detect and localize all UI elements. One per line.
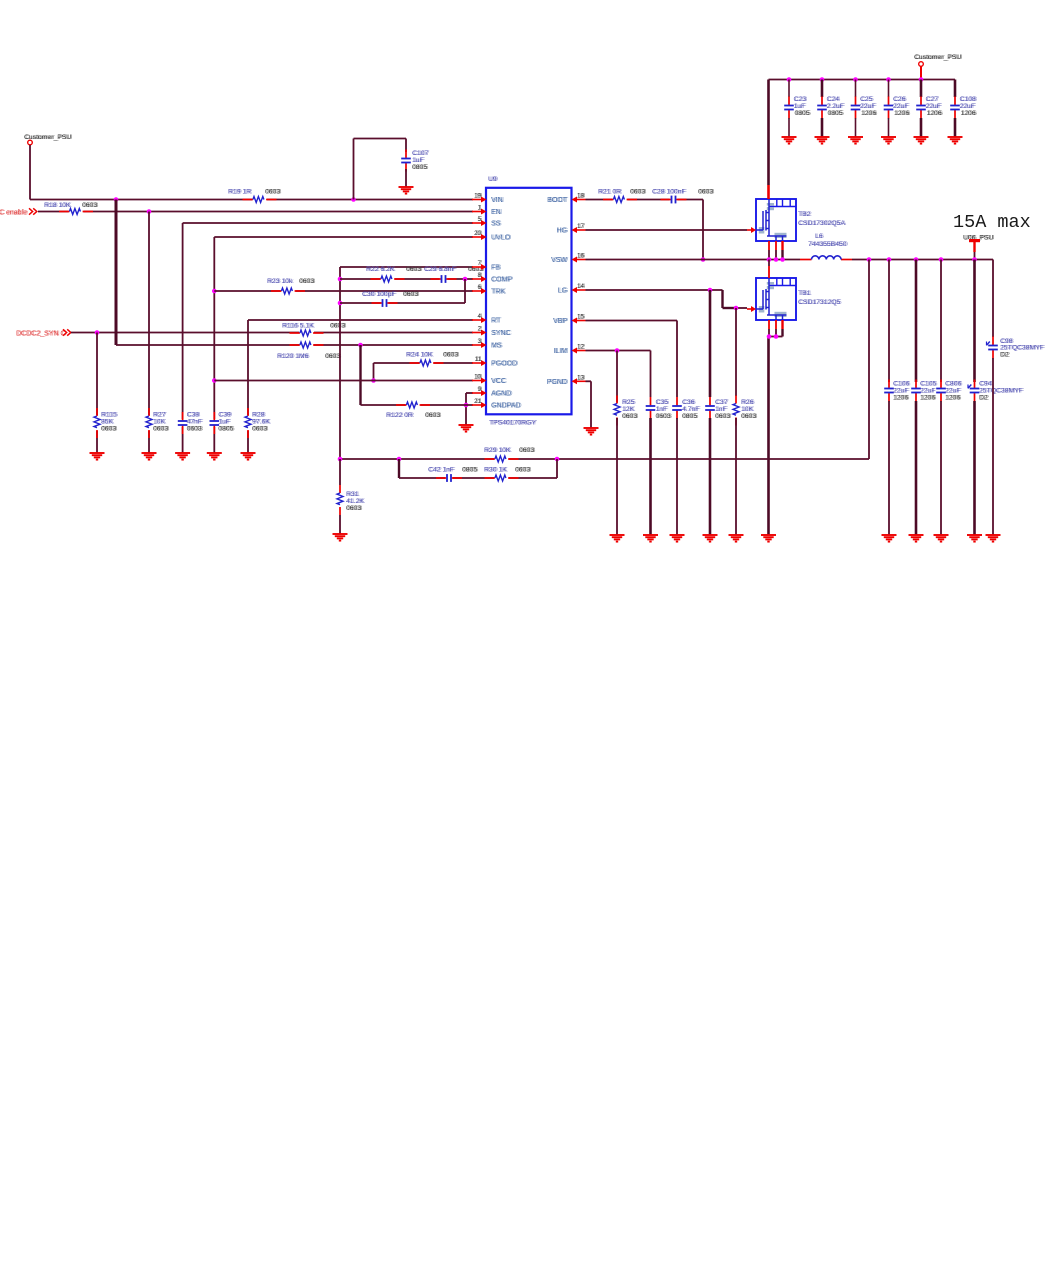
svg-text:18: 18 (578, 193, 585, 200)
wire C24 branch (821, 80, 824, 98)
wire TRK net (214, 290, 473, 292)
capacitor C24 (817, 96, 846, 119)
svg-text:C29 6.8nF: C29 6.8nF (425, 266, 457, 273)
svg-text:10K: 10K (742, 406, 755, 413)
svg-text:C106: C106 (894, 381, 910, 388)
ground for C39 (207, 453, 222, 460)
svg-text:EN: EN (492, 209, 502, 216)
wire LG gate drive net (586, 290, 748, 308)
wire ILIM net (586, 351, 651, 398)
svg-text:VIN: VIN (492, 197, 504, 204)
svg-text:R24 10K: R24 10K (407, 352, 434, 359)
svg-text:PGOOD: PGOOD (492, 361, 518, 368)
svg-text:22uF: 22uF (946, 388, 962, 395)
resistor R19 (228, 189, 282, 204)
svg-text:C107: C107 (413, 150, 429, 157)
svg-text:22uF: 22uF (894, 103, 910, 110)
svg-text:R22 6.2K: R22 6.2K (367, 266, 396, 273)
ground for C107 (399, 187, 414, 194)
svg-text:BOOT: BOOT (548, 197, 569, 204)
svg-text:R23 10k: R23 10k (268, 278, 294, 285)
svg-text:6: 6 (479, 284, 483, 291)
svg-text:SYNC: SYNC (492, 330, 511, 337)
svg-text:C23: C23 (795, 96, 808, 103)
svg-text:1206: 1206 (962, 110, 977, 117)
svg-text:R18 10K: R18 10K (45, 202, 72, 209)
capacitor C94 (968, 380, 1024, 402)
svg-text:RT: RT (492, 318, 502, 325)
wire C25 to ground (855, 118, 857, 137)
svg-text:2.2uF: 2.2uF (828, 103, 845, 110)
node VIN junction at FSEL strap (114, 197, 119, 202)
resistor R24 (406, 352, 460, 368)
node VSW at TB2 sources (767, 257, 785, 262)
svg-text:C105: C105 (921, 381, 937, 388)
svg-text:0805: 0805 (220, 426, 235, 433)
ground for TB1 source (761, 535, 776, 542)
wire RT net (248, 320, 473, 453)
ground for C36 (670, 535, 685, 542)
svg-text:C806: C806 (946, 381, 962, 388)
wire TB2 drain from input rail (767, 80, 770, 200)
svg-text:VBP: VBP (554, 318, 568, 325)
svg-text:L6: L6 (816, 233, 824, 240)
node TB1 gate / R26 junction (734, 306, 739, 311)
port DCDC2_SYN C (16, 329, 71, 337)
svg-text:97.6K: 97.6K (253, 419, 271, 426)
svg-text:C38: C38 (188, 412, 201, 419)
wire C37 to ground (709, 418, 712, 535)
port Customer_PSU (top-left) (24, 134, 73, 145)
svg-text:10K: 10K (154, 419, 167, 426)
wire VOUT rail (975, 252, 994, 337)
ground for AGND (459, 425, 474, 432)
wire C806 to ground (940, 401, 942, 535)
svg-text:0603: 0603 (102, 426, 117, 433)
wire R25 to ground (616, 418, 618, 535)
wire C806 branch (940, 260, 942, 383)
resistor R27 (145, 408, 170, 438)
resistor R29 (484, 447, 536, 463)
svg-text:13: 13 (578, 374, 585, 381)
node input rail junctions (787, 77, 924, 82)
inductor L6 (800, 233, 852, 260)
wire C42/R30 branch (399, 459, 557, 478)
svg-text:C24: C24 (828, 96, 841, 103)
capacitor C27 (916, 96, 944, 119)
ground for C806 (934, 535, 949, 542)
svg-text:0805: 0805 (829, 110, 844, 117)
svg-text:3: 3 (479, 338, 483, 345)
svg-text:0603: 0603 (154, 426, 169, 433)
capacitor C25 (850, 96, 878, 119)
wire TB1 source pins to ground rail (769, 320, 783, 535)
svg-text:85K: 85K (102, 419, 115, 426)
svg-text:C27: C27 (927, 96, 940, 103)
resistor R23 (267, 278, 316, 295)
wire C23 to ground (788, 118, 790, 137)
wire PGOOD net (374, 363, 474, 381)
transistor TB1 CSD17312Q5 (low side) (747, 278, 842, 320)
svg-text:12: 12 (578, 344, 585, 351)
node LG/C37 junction (708, 288, 713, 293)
svg-text:GNDPAD: GNDPAD (492, 403, 521, 410)
ground for C98 (986, 535, 1001, 542)
ground for C26 (881, 137, 896, 144)
svg-text:8: 8 (479, 272, 483, 279)
svg-text:UVLO: UVLO (492, 235, 512, 242)
resistor R22 (366, 266, 423, 283)
wire VOUT feedback sense tap (868, 260, 870, 460)
svg-text:9: 9 (479, 386, 483, 393)
svg-text:C37: C37 (716, 399, 729, 406)
svg-text:R29 10K: R29 10K (485, 447, 512, 454)
svg-text:25TQC38MYF: 25TQC38MYF (1001, 345, 1045, 352)
svg-text:Customer_PSU: Customer_PSU (25, 134, 72, 141)
capacitor C106 (884, 380, 911, 402)
svg-text:TPS40170RGY: TPS40170RGY (490, 420, 537, 427)
svg-text:R19 1R: R19 1R (229, 189, 252, 196)
port IC enable (0, 208, 37, 216)
wire SS net (183, 223, 473, 453)
capacitor C23 (784, 96, 812, 119)
resistor R31 (336, 485, 366, 515)
resistor R26 (732, 396, 758, 426)
svg-text:1: 1 (479, 205, 483, 212)
svg-text:4.7nF: 4.7nF (683, 406, 700, 413)
svg-text:2: 2 (479, 326, 483, 333)
wire C105 to ground (915, 401, 918, 535)
port Customer_PSU (top-right) (914, 54, 963, 80)
svg-text:1206: 1206 (895, 110, 910, 117)
svg-text:AGND: AGND (492, 391, 512, 398)
wire R31 branch (339, 459, 341, 534)
ground for C25 (848, 137, 863, 144)
svg-text:25TQC38MYF: 25TQC38MYF (980, 388, 1024, 395)
svg-text:0603: 0603 (742, 413, 757, 420)
wire input rail (769, 79, 956, 81)
node EN junction (147, 209, 152, 214)
capacitor C35 (645, 397, 672, 420)
node AGND/GNDPAD junction (464, 403, 469, 408)
node FB/C30 junction (338, 301, 343, 306)
svg-text:15: 15 (578, 314, 585, 321)
svg-text:C42 1nF: C42 1nF (429, 467, 455, 474)
resistor R115 (93, 408, 118, 438)
node VOUT junctions (867, 257, 977, 262)
node COMP/C30 junction (463, 277, 468, 282)
svg-text:C39: C39 (220, 412, 233, 419)
svg-text:IC enable: IC enable (0, 210, 28, 217)
node FB divider junction (338, 457, 343, 462)
svg-text:MS: MS (492, 343, 503, 350)
svg-text:LG: LG (559, 288, 568, 295)
svg-text:22uF: 22uF (861, 103, 877, 110)
svg-text:C30 100pF: C30 100pF (363, 291, 397, 298)
svg-text:TRK: TRK (492, 289, 506, 296)
svg-text:PGND: PGND (548, 379, 568, 386)
wire FB net (340, 267, 473, 459)
svg-text:22uF: 22uF (894, 388, 910, 395)
svg-text:22uF: 22uF (921, 388, 937, 395)
svg-text:0805: 0805 (796, 110, 811, 117)
capacitor C39 (209, 412, 235, 435)
svg-text:0603: 0603 (253, 426, 268, 433)
svg-text:0603: 0603 (331, 323, 346, 330)
resistor R25 (613, 396, 639, 426)
svg-text:7: 7 (479, 260, 483, 267)
resistor R120 (277, 341, 342, 360)
svg-text:0603: 0603 (404, 291, 419, 298)
svg-text:D2: D2 (1001, 352, 1010, 359)
wire COMP net (340, 278, 473, 280)
capacitor C107 (354, 139, 430, 200)
ground for C105 (909, 535, 924, 542)
wire SYNC net (71, 332, 473, 334)
ground for C94 (967, 535, 982, 542)
node SYNC junction (95, 330, 100, 335)
capacitor C28 (652, 189, 715, 206)
wire C25 branch (855, 80, 857, 98)
svg-text:0603: 0603 (657, 413, 672, 420)
svg-text:20: 20 (475, 230, 482, 237)
wire VCC net (214, 380, 473, 382)
svg-text:SS: SS (492, 221, 502, 228)
wire C106 to ground (888, 401, 890, 535)
node C42 branch left (397, 457, 402, 462)
svg-text:0603: 0603 (300, 278, 315, 285)
svg-text:22uF: 22uF (927, 103, 943, 110)
wire C30 branch (340, 279, 465, 303)
svg-text:0805: 0805 (683, 413, 698, 420)
svg-text:DCDC2_SYN C: DCDC2_SYN C (17, 331, 66, 338)
wire C108 to ground (954, 118, 957, 137)
wire ILIM to R25 branch (616, 351, 618, 409)
svg-text:HG: HG (558, 228, 569, 235)
wire SYNC pulldown branch (96, 333, 98, 454)
resistor R116 (282, 323, 347, 338)
resistor R18 (44, 202, 99, 216)
ground for C108 (948, 137, 963, 144)
svg-text:12K: 12K (623, 406, 636, 413)
wire C36 to ground (676, 418, 678, 535)
svg-text:C36: C36 (683, 399, 696, 406)
svg-text:17: 17 (578, 223, 585, 230)
capacitor C30 (362, 291, 420, 309)
svg-text:C28 100nF: C28 100nF (653, 189, 687, 196)
svg-text:47nF: 47nF (188, 419, 204, 426)
svg-text:1uF: 1uF (795, 103, 807, 110)
ground for C27 (914, 137, 929, 144)
capacitor C42 (428, 467, 479, 485)
capacitor C29 (424, 266, 485, 285)
wire C24 to ground (821, 118, 824, 137)
svg-text:0805: 0805 (463, 467, 478, 474)
wire C23 branch (788, 80, 790, 98)
wire C106 branch (888, 260, 890, 383)
node UVLO/TRK junction (212, 289, 217, 294)
resistor R122 (386, 401, 442, 419)
svg-text:VCC: VCC (492, 378, 507, 385)
capacitor C806 (936, 380, 963, 402)
svg-text:1nF: 1nF (716, 406, 728, 413)
svg-text:5: 5 (479, 216, 483, 223)
node TB1 source tie (767, 334, 779, 339)
node PGOOD pullup junction (371, 378, 376, 383)
svg-text:TB1: TB1 (799, 290, 812, 297)
svg-text:4: 4 (479, 313, 483, 320)
wire C108 branch (954, 80, 957, 98)
op-amp U9 TPS40170RGY controller (472, 176, 586, 427)
port U06_PSU output (963, 235, 995, 253)
resistor R28 (244, 408, 272, 438)
svg-text:0603: 0603 (266, 189, 281, 196)
svg-text:R116 5.1K: R116 5.1K (283, 323, 315, 330)
wire R26 branch (735, 308, 737, 396)
svg-text:Customer_PSU: Customer_PSU (915, 54, 962, 61)
wire C94 branch (973, 260, 976, 383)
svg-text:R115: R115 (102, 412, 118, 419)
node ILIM/R25 junction (615, 348, 620, 353)
wire EN pulldown branch (148, 212, 150, 454)
node BOOT/VSW junction (701, 257, 706, 262)
wire TB2 source pins to switch node (769, 241, 783, 260)
svg-text:0603: 0603 (631, 189, 646, 196)
wire VIN input net (30, 145, 473, 200)
svg-text:VSW: VSW (552, 257, 568, 264)
wire C98 to ground (992, 358, 994, 535)
svg-text:C26: C26 (894, 96, 907, 103)
ground for R26 (729, 535, 744, 542)
svg-text:0603: 0603 (347, 505, 362, 512)
svg-text:14: 14 (578, 283, 585, 290)
wire FSEL net (116, 200, 473, 346)
svg-text:0603: 0603 (188, 426, 203, 433)
wire TB1 drain to switch node (768, 260, 770, 279)
wire C105 branch (915, 260, 918, 383)
ground for R27 (142, 453, 157, 460)
svg-text:10: 10 (475, 374, 482, 381)
wire FSEL to GNDPAD strap (359, 345, 361, 405)
wire VSW switch node (586, 259, 994, 261)
node UVLO/VCC junction (212, 378, 217, 383)
resistor R21 (598, 189, 647, 204)
svg-text:0603: 0603 (444, 352, 459, 359)
ground for PGND (584, 428, 599, 435)
svg-text:21: 21 (475, 398, 482, 405)
svg-text:1206: 1206 (921, 395, 936, 402)
svg-text:R30 1K: R30 1K (485, 467, 508, 474)
svg-text:0603: 0603 (83, 202, 98, 209)
svg-text:0603: 0603 (407, 266, 422, 273)
capacitor C37 (705, 397, 732, 420)
wire C26 to ground (888, 118, 890, 137)
capacitor C108 (950, 96, 978, 119)
svg-text:11: 11 (476, 356, 483, 363)
wire C94 to ground (973, 401, 976, 535)
svg-text:R26: R26 (742, 399, 755, 406)
ground for C23 (782, 137, 797, 144)
label 15A max (953, 212, 1031, 233)
transistor TB2 CSD17302Q5A (high side) (747, 199, 847, 241)
svg-text:C108: C108 (961, 96, 977, 103)
capacitor C98 (987, 337, 1046, 359)
svg-text:D2: D2 (980, 395, 989, 402)
svg-text:15A max: 15A max (953, 212, 1031, 233)
svg-text:0603: 0603 (623, 413, 638, 420)
ground for C35 (643, 535, 658, 542)
capacitor C38 (177, 412, 203, 435)
capacitor C26 (883, 96, 911, 119)
ground for R115 (90, 453, 105, 460)
svg-text:1206: 1206 (928, 110, 943, 117)
svg-text:1uF: 1uF (220, 419, 232, 426)
node FSEL/AGND strap junction (358, 343, 363, 348)
svg-text:0603: 0603 (716, 413, 731, 420)
capacitor C105 (911, 380, 938, 402)
svg-text:0603: 0603 (516, 467, 531, 474)
wire R26 to ground (735, 418, 737, 535)
node VIN junction at C107 tap (351, 197, 356, 202)
svg-text:CSD17302Q5A: CSD17302Q5A (799, 220, 846, 227)
svg-text:19: 19 (475, 193, 482, 200)
wire C27 branch (920, 80, 923, 98)
svg-text:U9: U9 (489, 176, 498, 183)
ground for R31 (333, 534, 348, 541)
wire UVLO net (214, 237, 473, 453)
wire C26 branch (888, 80, 890, 98)
wire BOOT net (586, 200, 704, 260)
svg-text:ILIM: ILIM (555, 348, 569, 355)
svg-text:16: 16 (578, 253, 585, 260)
svg-text:R122 0R: R122 0R (387, 412, 414, 419)
wire VBP net (586, 321, 678, 398)
svg-text:R28: R28 (253, 412, 266, 419)
capacitor C36 (672, 397, 701, 420)
svg-text:CSD17312Q5: CSD17312Q5 (799, 299, 842, 306)
wire GNDPAD net (361, 404, 474, 406)
svg-text:0603: 0603 (520, 447, 535, 454)
svg-text:1nF: 1nF (657, 406, 669, 413)
svg-text:R31: R31 (347, 491, 360, 498)
node C42 branch right (555, 457, 560, 462)
svg-text:R27: R27 (154, 412, 167, 419)
svg-text:1206: 1206 (946, 395, 961, 402)
svg-text:R25: R25 (623, 399, 636, 406)
ground for R28 (241, 453, 256, 460)
svg-text:C35: C35 (657, 399, 670, 406)
svg-text:TB2: TB2 (799, 211, 812, 218)
resistor R30 (484, 467, 532, 483)
svg-text:C94: C94 (980, 381, 993, 388)
wire PGND net (586, 381, 592, 428)
svg-text:1206: 1206 (894, 395, 909, 402)
svg-text:1uF: 1uF (413, 157, 425, 164)
node FB/COMP-RC junction (338, 277, 343, 282)
ground for R25 (610, 535, 625, 542)
svg-text:41.2K: 41.2K (347, 498, 365, 505)
ground for C106 (882, 535, 897, 542)
ground for C38 (175, 453, 190, 460)
svg-text:0805: 0805 (413, 164, 428, 171)
wire FB divider net (340, 458, 869, 460)
svg-text:C25: C25 (861, 96, 874, 103)
ground for C37 (703, 535, 718, 542)
wire HG gate drive net (586, 229, 748, 231)
svg-text:0603: 0603 (426, 412, 441, 419)
wire C37 branch (709, 290, 712, 397)
svg-text:COMP: COMP (492, 277, 513, 284)
